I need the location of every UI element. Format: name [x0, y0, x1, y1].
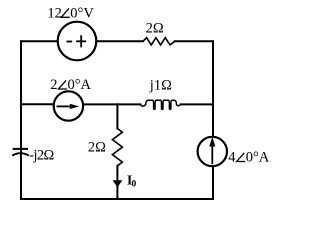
current arrow I0: [113, 180, 123, 187]
resistor 2ohm middle zigzag: [112, 129, 122, 166]
svg-text:0°V: 0°V: [70, 6, 94, 22]
wire top middle segment: [96, 40, 143, 42]
current source I2 arrow: [209, 137, 215, 164]
voltage source V1 minus sign: [67, 41, 73, 43]
svg-text:12: 12: [47, 6, 62, 22]
wire center branch upper stub: [116, 104, 118, 128]
voltage source V1 plus sign: [76, 35, 86, 47]
svg-text:2Ω: 2Ω: [146, 21, 164, 37]
wire middle left segment: [21, 103, 54, 105]
capacitor -j2Ω top plate: [13, 148, 28, 150]
svg-text:4: 4: [228, 150, 236, 166]
wire middle right segment: [181, 103, 213, 105]
wire right vertical upper: [212, 41, 214, 137]
wire top right segment: [175, 40, 213, 42]
wire left vertical: [20, 41, 22, 199]
svg-text:0°A: 0°A: [68, 77, 92, 93]
wire middle center segment: [83, 103, 140, 105]
current source I1 arrow: [57, 104, 80, 109]
wire right vertical lower: [212, 166, 214, 199]
label 2∠0°A: [50, 77, 91, 93]
current source I2 circle: [198, 137, 227, 166]
voltage source V1 circle: [58, 22, 97, 61]
label 12∠0°V: [47, 6, 94, 22]
capacitor -j2Ω curved plate: [12, 153, 29, 155]
svg-text:0: 0: [132, 179, 137, 189]
label I0: [127, 173, 137, 189]
svg-text:2Ω: 2Ω: [88, 139, 106, 155]
svg-text:0°A: 0°A: [246, 150, 270, 166]
wire bottom: [21, 198, 213, 200]
inductor j1Ω coil: [140, 100, 181, 109]
resistor 2ohm top zigzag: [143, 38, 175, 45]
label 4∠0°A: [228, 150, 269, 166]
wire center branch lower: [116, 166, 118, 199]
wire top-left segment: [21, 40, 58, 42]
svg-text:-j2Ω: -j2Ω: [29, 147, 54, 163]
current source I1 circle: [54, 91, 83, 120]
svg-text:j1Ω: j1Ω: [149, 77, 172, 93]
svg-text:2: 2: [50, 77, 57, 93]
